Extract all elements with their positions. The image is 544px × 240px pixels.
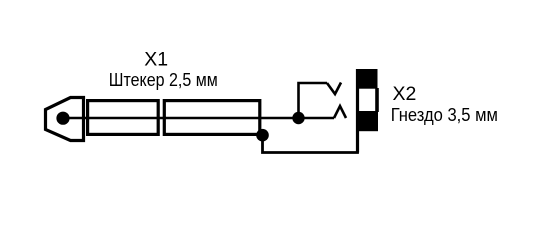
socket X2 body right edge line [375,88,379,112]
wire sleeve to socket body [263,131,358,153]
contact upper spring chevron [327,83,341,95]
connector X1 body segment 1 [88,101,159,135]
connector X1 plug tip hexagon [46,98,84,141]
socket X2 body left bus line [356,69,359,153]
node center junction dot [292,112,304,124]
connector X1 body segment 2 [164,101,259,135]
node tip contact dot [56,112,69,125]
socket X2 body bottom contact block [356,111,378,131]
wire riser to upper contact [299,83,328,118]
svg-text:Гнездо 3,5 мм: Гнездо 3,5 мм [391,105,498,125]
wire center conductor line [63,117,334,120]
svg-text:X2: X2 [393,83,417,105]
contact lower spring chevron [334,106,346,118]
svg-text:Штекер 2,5 мм: Штекер 2,5 мм [109,70,218,90]
socket X2 body top contact block [357,69,378,89]
node sleeve junction dot [256,129,269,142]
svg-text:X1: X1 [144,48,168,70]
